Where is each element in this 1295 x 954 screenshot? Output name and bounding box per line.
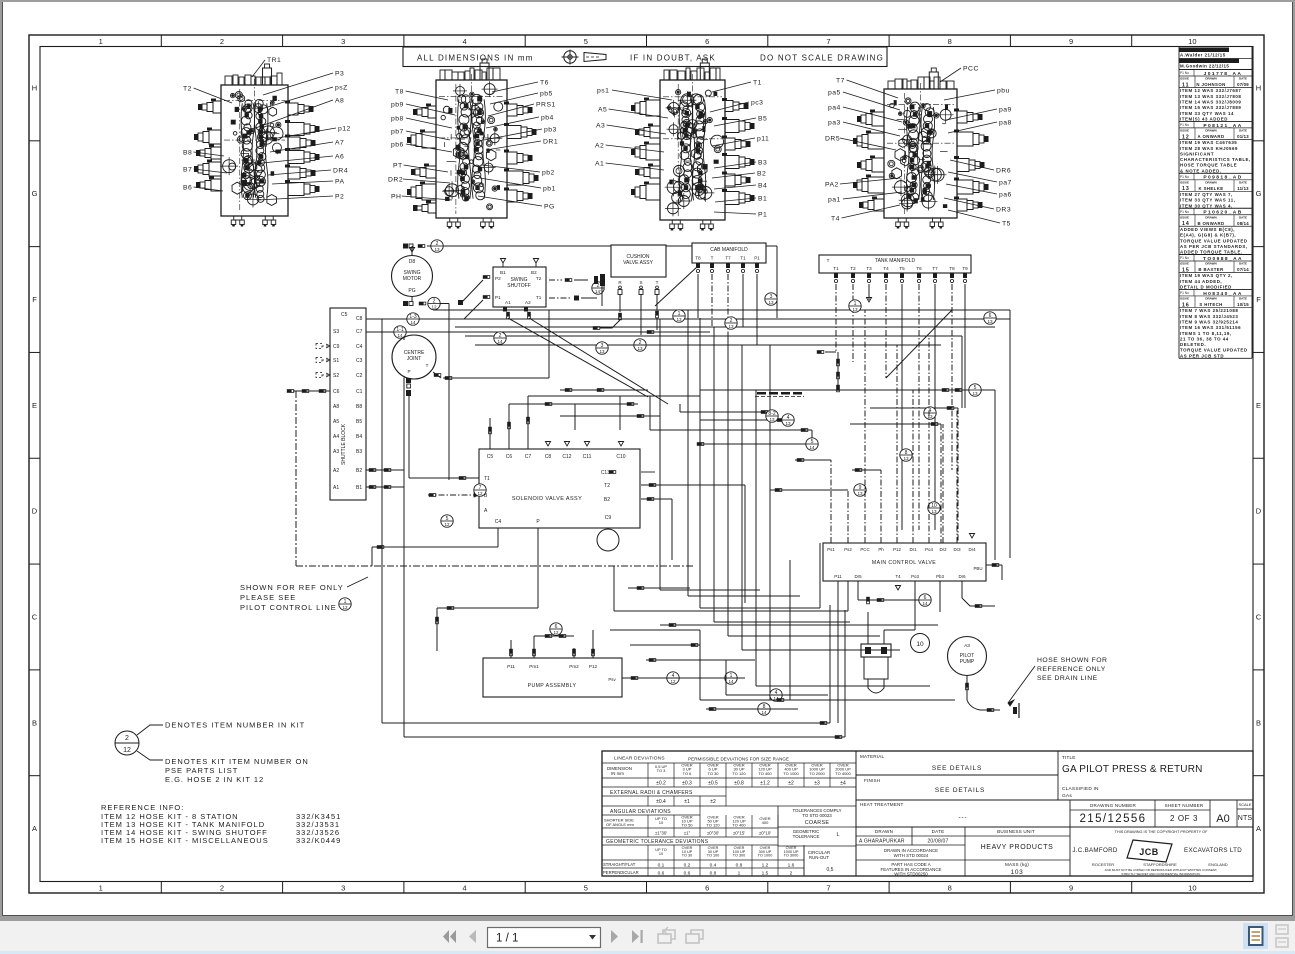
svg-text:F: F [1256, 295, 1261, 304]
svg-text:pb5: pb5 [540, 90, 553, 97]
svg-text:13: 13 [927, 414, 933, 419]
svg-text:8: 8 [948, 884, 952, 893]
svg-text:J.C.BAMFORD: J.C.BAMFORD [1072, 847, 1117, 854]
svg-text:GA PILOT PRESS & RETURN: GA PILOT PRESS & RETURN [1062, 764, 1203, 775]
svg-text:pb2: pb2 [542, 169, 555, 176]
svg-text:B7: B7 [183, 166, 192, 173]
svg-text:B1: B1 [356, 485, 362, 491]
svg-text:H: H [1256, 83, 1261, 92]
svg-text:S: S [639, 280, 642, 285]
wires cab manifold drops [655, 263, 759, 345]
svg-text:pb8: pb8 [391, 115, 404, 122]
svg-text:DATE: DATE [1239, 262, 1247, 266]
svg-text:1: 1 [738, 871, 741, 877]
wires tank manifold drops [817, 266, 968, 530]
svg-text:B8: B8 [356, 404, 362, 410]
svg-text:13: 13 [434, 247, 440, 252]
svg-text:ITEM 9 WAS 32/925214: ITEM 9 WAS 32/925214 [1180, 319, 1238, 324]
svg-text:R: R [618, 280, 622, 285]
svg-text:E: E [32, 401, 37, 410]
svg-text:Pm1: Pm1 [529, 664, 539, 669]
centre joint [392, 335, 436, 379]
svg-text:T6: T6 [540, 79, 549, 86]
svg-text:C2: C2 [356, 373, 363, 379]
svg-text:C4: C4 [356, 344, 363, 350]
svg-text:pa5: pa5 [828, 89, 841, 96]
svg-text:11/13: 11/13 [1237, 186, 1249, 191]
svg-text:STRAIGHT/FLAT: STRAIGHT/FLAT [603, 862, 636, 867]
kit item marker 8-2/13 [766, 410, 778, 422]
svg-text:& NOTE ADDED.: & NOTE ADDED. [1180, 168, 1222, 173]
svg-text:IN mm: IN mm [611, 771, 624, 776]
valve block: 8 station manifold view 1 [194, 64, 320, 227]
svg-text:T2: T2 [850, 266, 856, 271]
svg-text:T2: T2 [536, 276, 542, 281]
svg-text:13: 13 [852, 307, 858, 312]
svg-text:C10: C10 [616, 454, 625, 460]
svg-text:20/08/07: 20/08/07 [927, 839, 948, 845]
svg-text:DR3: DR3 [996, 206, 1011, 213]
svg-text:P11: P11 [834, 574, 842, 579]
elbow chain wires [540, 388, 660, 430]
svg-text:CLASSIFIED IN: CLASSIFIED IN [1062, 786, 1099, 792]
kit item marker 2/14 [494, 332, 506, 344]
block 1 left labels [183, 85, 232, 191]
svg-text:C12: C12 [562, 454, 571, 460]
svg-text:PT: PT [393, 162, 403, 169]
single page view icon (active) [1243, 923, 1268, 949]
svg-text:10: 10 [916, 641, 924, 648]
svg-text:PG: PG [408, 288, 415, 294]
svg-text:H: H [32, 83, 37, 92]
svg-text:1: 1 [678, 311, 681, 317]
svg-text:21 TO 36, 38 TO 44: 21 TO 36, 38 TO 44 [1180, 336, 1229, 341]
svg-text:2: 2 [730, 318, 733, 324]
svg-text:P1 No: P1 No [1180, 175, 1189, 179]
svg-text:WITH STD 00024: WITH STD 00024 [894, 853, 929, 858]
svg-text:±0.3: ±0.3 [682, 781, 692, 787]
kit item marker 8/14 [758, 703, 770, 715]
svg-text:DRAWING NUMBER: DRAWING NUMBER [1090, 803, 1136, 808]
svg-text:AS PER JCB STANDARDS,: AS PER JCB STANDARDS, [1180, 244, 1248, 249]
middle mesh wires [650, 310, 955, 700]
svg-text:2: 2 [220, 37, 224, 46]
swing shutoff block [493, 259, 546, 308]
svg-text:C11: C11 [583, 454, 592, 460]
svg-text:4: 4 [787, 415, 790, 421]
svg-text:DATE: DATE [1239, 215, 1247, 219]
svg-text:SEE DETAILS: SEE DETAILS [932, 765, 982, 772]
svg-text:C7: C7 [525, 454, 532, 460]
kit item marker 2/14' [592, 282, 604, 294]
svg-text:PBU: PBU [973, 566, 982, 571]
svg-text:13: 13 [785, 421, 791, 426]
svg-text:T8: T8 [949, 266, 955, 271]
svg-text:PLEASE SEE: PLEASE SEE [240, 593, 296, 602]
kit item marker 2/13 [634, 339, 646, 351]
svg-text:9: 9 [1069, 37, 1073, 46]
svg-text:13: 13 [637, 346, 643, 351]
svg-text:T: T [711, 256, 714, 261]
svg-text:TO 30: TO 30 [707, 771, 719, 776]
svg-text:DRAWN: DRAWN [1205, 129, 1216, 133]
svg-text:TO 30: TO 30 [682, 854, 692, 858]
svg-text:08/14: 08/14 [1237, 221, 1249, 226]
svg-text:TITLE: TITLE [1062, 755, 1076, 760]
svg-text:NTS: NTS [1238, 815, 1253, 822]
swing motor [392, 256, 433, 297]
svg-text:A0: A0 [1216, 813, 1229, 825]
kit item marker 8/13 [900, 449, 912, 461]
svg-text:ITEM 27 QTY WAS 7,: ITEM 27 QTY WAS 7, [1180, 192, 1233, 197]
svg-text:P2: P2 [495, 276, 501, 281]
svg-text:±0°30': ±0°30' [707, 831, 719, 836]
svg-text:DRAWN: DRAWN [1205, 262, 1216, 266]
svg-text:A8: A8 [333, 404, 339, 410]
svg-text:3: 3 [341, 884, 345, 893]
svg-text:SEE DRAIN LINE: SEE DRAIN LINE [1037, 675, 1098, 682]
svg-text:PUMP ASSEMBLY: PUMP ASSEMBLY [528, 683, 577, 689]
svg-text:6: 6 [705, 37, 709, 46]
svg-text:PCC: PCC [963, 65, 979, 72]
svg-text:---: --- [959, 814, 968, 821]
svg-text:ADDED VIEWS B(C8),: ADDED VIEWS B(C8), [1180, 227, 1235, 232]
pilot pump [948, 637, 1020, 719]
svg-text:13: 13 [728, 324, 734, 329]
block 4 right labels [940, 65, 1012, 227]
svg-text:B4: B4 [758, 182, 767, 189]
svg-text:REFERENCE ONLY: REFERENCE ONLY [1037, 666, 1106, 673]
svg-text:B3: B3 [356, 449, 362, 455]
svg-text:13: 13 [599, 349, 605, 354]
svg-text:N JOHNSON: N JOHNSON [1196, 82, 1225, 87]
svg-text:MOTOR: MOTOR [403, 276, 422, 282]
svg-text:pa9: pa9 [999, 106, 1012, 113]
hose reference note [1008, 657, 1107, 706]
page number box [488, 928, 601, 948]
svg-text:10: 10 [1188, 37, 1196, 46]
svg-text:14: 14 [761, 710, 767, 715]
svg-text:PG: PG [544, 203, 555, 210]
svg-text:WITH STD00250: WITH STD00250 [894, 872, 928, 877]
svg-text:E.G. HOSE 2 IN KIT 12: E.G. HOSE 2 IN KIT 12 [165, 775, 264, 784]
svg-text:Ps2: Ps2 [844, 547, 852, 552]
svg-text:P: P [407, 369, 410, 374]
svg-text:Psv: Psv [608, 677, 616, 682]
kit item marker 6/14 [919, 594, 931, 606]
svg-text:pb4: pb4 [541, 114, 554, 121]
svg-text:S3: S3 [333, 329, 339, 335]
toolbar separator [0, 917, 1295, 921]
tank manifold [819, 255, 971, 273]
svg-text:TO 50: TO 50 [681, 823, 693, 828]
wire swing motor top line [403, 244, 777, 319]
kit legend [115, 721, 309, 785]
svg-text:E(A4), G(G8) & K(B7),: E(A4), G(G8) & K(B7), [1180, 233, 1236, 238]
svg-text:Pm2: Pm2 [569, 664, 579, 669]
svg-text:C9: C9 [333, 344, 340, 350]
svg-text:1: 1 [344, 599, 347, 605]
svg-text:DO NOT SCALE DRAWING: DO NOT SCALE DRAWING [760, 54, 884, 63]
svg-text:0.8: 0.8 [710, 871, 717, 877]
svg-text:4: 4 [462, 37, 466, 46]
svg-text:7: 7 [826, 37, 830, 46]
svg-text:ANGULAR DEVIATIONS: ANGULAR DEVIATIONS [610, 809, 671, 815]
svg-text:14: 14 [497, 339, 503, 344]
svg-text:±1.2: ±1.2 [760, 781, 770, 787]
wires pump ports [437, 630, 610, 658]
svg-text:HEAVY PRODUCTS: HEAVY PRODUCTS [981, 844, 1054, 851]
svg-text:TO 400: TO 400 [758, 771, 772, 776]
svg-text:13: 13 [931, 509, 937, 514]
svg-text:PERPENDICULAR: PERPENDICULAR [603, 870, 639, 875]
svg-text:STAFFORDSHIRE: STAFFORDSHIRE [1143, 862, 1177, 867]
svg-text:pb6: pb6 [391, 141, 404, 148]
svg-text:VALVE ASSY: VALVE ASSY [623, 260, 653, 266]
svg-text:B ONWARD: B ONWARD [1197, 221, 1224, 226]
svg-text:±1: ±1 [684, 799, 690, 805]
svg-text:5: 5 [446, 516, 449, 522]
svg-text:1 / 1: 1 / 1 [496, 933, 518, 945]
svg-text:HEAT TREATMENT: HEAT TREATMENT [860, 802, 904, 807]
svg-text:SIGNIFICANT: SIGNIFICANT [1180, 151, 1214, 156]
svg-text:pa6: pa6 [999, 191, 1012, 198]
svg-text:Ps1: Ps1 [827, 547, 835, 552]
svg-text:RUN-OUT: RUN-OUT [809, 855, 830, 860]
svg-text:Ph: Ph [878, 547, 884, 552]
svg-text:COARSE: COARSE [805, 820, 830, 826]
svg-text:Po4: Po4 [925, 547, 933, 552]
svg-text:ITEM 33 QTY WAS 11,: ITEM 33 QTY WAS 11, [1180, 198, 1236, 203]
svg-text:TO 120: TO 120 [732, 771, 746, 776]
svg-text:C: C [32, 612, 38, 621]
svg-text:2: 2 [433, 298, 436, 304]
svg-text:MATERIAL: MATERIAL [860, 754, 884, 759]
svg-text:ADDED TORQUE TABLE.: ADDED TORQUE TABLE. [1180, 250, 1243, 255]
svg-text:K SHELKE: K SHELKE [1199, 186, 1224, 191]
svg-text:Dr6: Dr6 [958, 574, 966, 579]
kit item marker 4/13 [782, 414, 794, 426]
svg-text:A: A [1256, 824, 1261, 833]
pilot reference dash-dot line [287, 389, 694, 566]
svg-text:ISSUE: ISSUE [1180, 180, 1189, 184]
svg-text:ITEM 14 WAS 332/J8009: ITEM 14 WAS 332/J8009 [1180, 100, 1241, 105]
svg-text:B5: B5 [758, 115, 767, 122]
svg-text:13: 13 [857, 491, 863, 496]
svg-text:T1: T1 [753, 79, 762, 86]
svg-text:B4: B4 [356, 434, 362, 440]
svg-text:T6: T6 [916, 266, 922, 271]
svg-text:D8: D8 [409, 259, 416, 265]
svg-text:TO 2000: TO 2000 [809, 771, 825, 776]
svg-text:P1: P1 [758, 211, 767, 218]
svg-text:A.Walder 21/12/15: A.Walder 21/12/15 [1180, 53, 1226, 58]
svg-text:TR1: TR1 [267, 57, 281, 64]
svg-text:A2: A2 [333, 468, 339, 474]
kit item marker 5/14 [806, 438, 818, 450]
svg-text:A6: A6 [335, 153, 344, 160]
svg-text:P1 No: P1 No [1180, 210, 1189, 214]
left loop wires [382, 319, 845, 739]
svg-text:ISSUE: ISSUE [1180, 262, 1189, 266]
svg-text:6: 6 [555, 624, 558, 630]
svg-text:5: 5 [584, 884, 588, 893]
svg-text:C1: C1 [356, 389, 363, 395]
svg-text:0,5: 0,5 [827, 867, 834, 873]
svg-text:SHEET NUMBER: SHEET NUMBER [1165, 803, 1204, 808]
svg-text:1.5: 1.5 [762, 871, 769, 877]
svg-text:A3: A3 [333, 449, 339, 455]
svg-text:3: 3 [341, 37, 345, 46]
svg-text:5: 5 [584, 37, 588, 46]
block 3 left labels [595, 87, 672, 170]
svg-text:SCALE: SCALE [1238, 802, 1251, 807]
svg-text:ISSUE: ISSUE [1180, 77, 1189, 81]
svg-text:P2: P2 [335, 193, 344, 200]
block 2 left labels [388, 88, 455, 200]
svg-text:FINISH: FINISH [864, 778, 880, 783]
svg-text:13: 13 [676, 317, 682, 322]
svg-text:T1: T1 [536, 295, 542, 300]
svg-text:1: 1 [854, 301, 857, 307]
svg-text:DR1: DR1 [543, 138, 558, 145]
svg-text:OF ANGLE mm: OF ANGLE mm [606, 822, 634, 827]
svg-text:PRS1: PRS1 [536, 101, 556, 108]
svg-text:MAIN CONTROL VALVE: MAIN CONTROL VALVE [872, 560, 936, 566]
svg-text:7: 7 [826, 884, 830, 893]
kit item marker 1-3/14 [407, 313, 419, 325]
svg-text:C13: C13 [601, 470, 610, 476]
svg-text:B1: B1 [500, 270, 506, 275]
continuous view icon (disabled) [1276, 925, 1288, 947]
solenoid valve assy [479, 442, 640, 552]
valve block: 8 station manifold view 3 [631, 59, 755, 231]
svg-text:TO 3: TO 3 [657, 768, 667, 773]
svg-text:T9: T9 [962, 266, 968, 271]
svg-text:C: C [1256, 612, 1262, 621]
svg-text:pa1: pa1 [828, 196, 841, 203]
block 2 right labels [478, 79, 558, 210]
svg-text:C4: C4 [495, 519, 502, 525]
svg-text:DELETED.: DELETED. [1180, 342, 1206, 347]
svg-text:SHUTOFF: SHUTOFF [507, 283, 531, 289]
svg-text:ITEM 7 WAS 25/221088: ITEM 7 WAS 25/221088 [1180, 308, 1238, 313]
svg-text:Po3: Po3 [911, 574, 919, 579]
svg-text:A7: A7 [335, 139, 344, 146]
svg-text:P3: P3 [335, 70, 344, 77]
svg-text:pb9: pb9 [391, 101, 404, 108]
svg-text:M.Goodwin 22/12/15: M.Goodwin 22/12/15 [1180, 64, 1229, 69]
svg-text:ITEM 8 WAS 332/J4523: ITEM 8 WAS 332/J4523 [1180, 314, 1238, 319]
svg-text:T8: T8 [695, 256, 701, 261]
svg-text:DENOTES ITEM NUMBER IN KIT: DENOTES ITEM NUMBER IN KIT [165, 721, 305, 730]
svg-text:10: 10 [659, 852, 663, 856]
kit item marker 4/14 [770, 689, 782, 701]
svg-text:DATE: DATE [932, 829, 945, 834]
shuttle block [293, 308, 404, 500]
svg-text:T5: T5 [899, 266, 905, 271]
svg-text:B2: B2 [531, 270, 537, 275]
svg-text:C5: C5 [341, 312, 348, 318]
svg-text:T5: T5 [1002, 220, 1011, 227]
svg-text:C6: C6 [506, 454, 513, 460]
prev view icon [658, 927, 675, 943]
svg-text:±1°: ±1° [684, 831, 691, 836]
svg-text:CHARACTERISTICS TABLE,: CHARACTERISTICS TABLE, [1180, 157, 1251, 162]
wires solenoid risers [372, 396, 790, 651]
kit item marker 3/13 [596, 342, 608, 354]
svg-text:2: 2 [436, 241, 439, 247]
svg-text:10: 10 [659, 820, 664, 825]
svg-text:ITEM 33 QTY WAS 14: ITEM 33 QTY WAS 14 [1180, 111, 1234, 116]
svg-text:A: A [32, 824, 37, 833]
svg-text:ISSUE: ISSUE [1180, 297, 1189, 301]
svg-text:DETAIL D MODIFIED: DETAIL D MODIFIED [1180, 285, 1232, 290]
svg-text:PA: PA [335, 178, 345, 185]
svg-text:±4: ±4 [840, 781, 846, 787]
svg-text:ENGLAND: ENGLAND [1208, 862, 1227, 867]
svg-text:TANK MANIFOLD: TANK MANIFOLD [875, 258, 916, 264]
svg-text:TOLERANCE: TOLERANCE [793, 834, 820, 839]
svg-text:14: 14 [922, 601, 928, 606]
svg-text:ITEM 15 HOSE KIT - MISCELLANEO: ITEM 15 HOSE KIT - MISCELLANEOUS [101, 836, 269, 845]
svg-text:B2: B2 [356, 468, 362, 474]
svg-text:S2: S2 [333, 373, 339, 379]
svg-text:EXTERNAL RADII & CHAMFERS: EXTERNAL RADII & CHAMFERS [610, 790, 693, 796]
svg-text:DR6: DR6 [996, 167, 1011, 174]
svg-text:ITEM 44 ADDED,: ITEM 44 ADDED, [1180, 279, 1222, 284]
block 4 left labels [825, 77, 902, 222]
pump assembly [483, 658, 700, 697]
title block right column [1058, 751, 1253, 876]
svg-text:SHUTTLE BLOCK: SHUTTLE BLOCK [341, 423, 347, 465]
prev page button [469, 930, 476, 943]
svg-text:A1: A1 [505, 300, 511, 305]
svg-text:PCC: PCC [860, 547, 869, 552]
svg-text:A1: A1 [333, 485, 339, 491]
svg-text:12: 12 [670, 679, 676, 684]
svg-text:ITEM 15 WAS 332/J7889: ITEM 15 WAS 332/J7889 [1180, 105, 1241, 110]
svg-text:DATE: DATE [1239, 180, 1247, 184]
svg-text:01/13: 01/13 [1237, 134, 1249, 139]
pilot line bundle horizontals [366, 310, 1010, 345]
svg-text:±3: ±3 [814, 781, 820, 787]
kit item marker 1/13 [673, 310, 685, 322]
svg-text:1-1: 1-1 [396, 327, 403, 333]
svg-text:SOLENOID VALVE ASSY: SOLENOID VALVE ASSY [512, 496, 582, 502]
wires MCV top risers [770, 310, 957, 543]
wires swing shutoff ports [458, 275, 668, 404]
kit item marker 2/12 [428, 297, 440, 309]
svg-text:C7: C7 [356, 329, 363, 335]
svg-text:C8: C8 [356, 316, 363, 322]
svg-text:ITEM 12 WAS 332/J7687: ITEM 12 WAS 332/J7687 [1180, 88, 1241, 93]
kit item marker 1/13 [849, 300, 861, 312]
svg-text:ITEM 13 WAS 332/J7808: ITEM 13 WAS 332/J7808 [1180, 94, 1241, 99]
svg-text:P1: P1 [754, 256, 760, 261]
svg-text:pb7: pb7 [391, 128, 404, 135]
cushion valve assy [593, 245, 666, 335]
pipe dashes symbol [755, 392, 804, 397]
svg-text:P12: P12 [589, 664, 598, 669]
kit item marker 6/13 [984, 312, 996, 324]
kit item marker 2/13 [431, 240, 443, 252]
svg-text:2: 2 [499, 333, 502, 339]
svg-text:DRAWN: DRAWN [1205, 215, 1216, 219]
svg-text:10/15: 10/15 [1237, 302, 1249, 307]
svg-text:pbu: pbu [997, 87, 1010, 94]
svg-text:A3: A3 [964, 643, 970, 649]
